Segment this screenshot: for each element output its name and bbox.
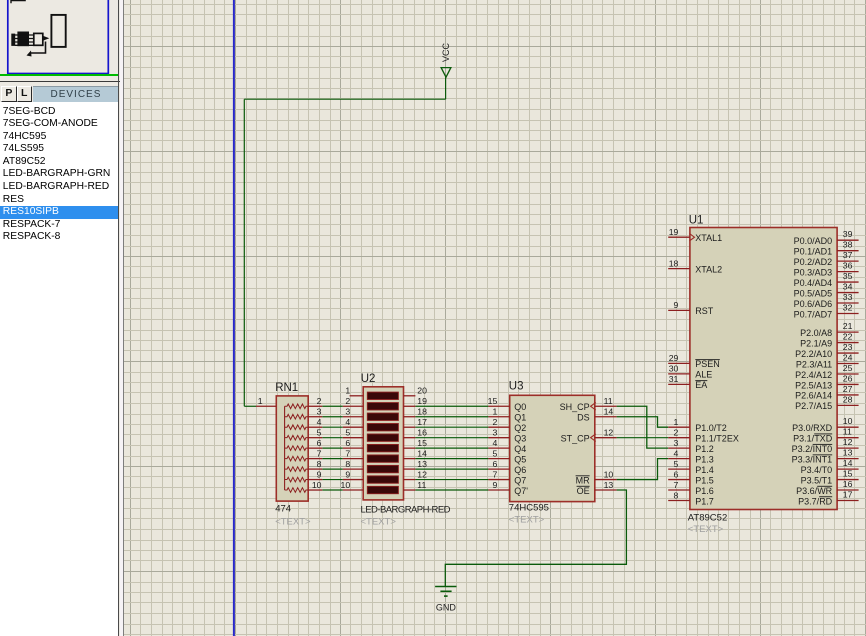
svg-text:8: 8 xyxy=(345,459,350,469)
U2 pin 14 stub (right) xyxy=(404,458,416,460)
U2 pin 7 stub (left) xyxy=(343,458,363,460)
RN1 pin 1 stub xyxy=(256,405,276,407)
RN1 pin 8 stub xyxy=(308,468,322,470)
svg-text:26: 26 xyxy=(843,373,853,383)
svg-text:P3.5/T1: P3.5/T1 xyxy=(801,475,833,485)
RN1 pin 10 stub xyxy=(308,489,322,491)
U3 pin 2 stub (left) xyxy=(488,426,509,428)
svg-text:P3.7/RD: P3.7/RD xyxy=(798,496,833,506)
svg-text:10: 10 xyxy=(341,480,351,490)
wire VCC vertical drop xyxy=(445,77,447,99)
wire U2 pin 15 to U3 pin 4 xyxy=(415,447,488,449)
svg-text:27: 27 xyxy=(843,384,853,394)
resistor element 2 of RN1 xyxy=(285,414,309,419)
svg-text:9: 9 xyxy=(492,480,497,490)
power symbol VCC xyxy=(441,42,451,77)
svg-text:<TEXT>: <TEXT> xyxy=(361,517,397,528)
svg-text:1: 1 xyxy=(345,386,350,396)
svg-text:Q5: Q5 xyxy=(514,454,526,464)
svg-text:7: 7 xyxy=(345,448,350,458)
svg-text:P1.4: P1.4 xyxy=(695,465,714,475)
svg-text:15: 15 xyxy=(843,469,853,479)
svg-text:31: 31 xyxy=(669,374,679,384)
svg-text:3: 3 xyxy=(317,407,322,417)
svg-text:Q1: Q1 xyxy=(514,413,526,423)
svg-text:14: 14 xyxy=(417,448,427,458)
U2 pin 13 stub (right) xyxy=(404,468,416,470)
svg-text:36: 36 xyxy=(843,261,853,271)
svg-text:9: 9 xyxy=(317,469,322,479)
svg-text:P1.3: P1.3 xyxy=(695,454,714,464)
svg-text:1: 1 xyxy=(674,417,679,427)
preview mini U1 xyxy=(51,15,65,47)
U3 pin 11 stub (right) xyxy=(595,405,617,407)
svg-text:24: 24 xyxy=(843,353,853,363)
svg-text:4: 4 xyxy=(317,417,322,427)
U3 pin 5 stub (left) xyxy=(488,458,509,460)
U1 pin 37 stub (right) xyxy=(837,260,859,262)
U1 pin 34 stub (right) xyxy=(837,292,859,294)
U1 pin 10 stub (right) xyxy=(837,426,859,428)
svg-text:4: 4 xyxy=(674,448,679,458)
resistor element 5 of RN1 xyxy=(285,446,309,451)
svg-text:Q3: Q3 xyxy=(514,433,526,443)
wire U2 pin 14 to U3 pin 5 xyxy=(415,458,488,460)
U1 pin 24 stub (right) xyxy=(837,363,859,365)
svg-text:P0.2/AD2: P0.2/AD2 xyxy=(794,257,833,267)
svg-text:11: 11 xyxy=(843,427,852,437)
U3 pin 15 stub (left) xyxy=(488,405,509,407)
svg-text:Q7': Q7' xyxy=(514,486,528,496)
svg-text:12: 12 xyxy=(417,469,427,479)
U1 pin 2 stub (left) xyxy=(668,437,690,439)
wire U2 pin 16 to U3 pin 3 xyxy=(415,437,488,439)
svg-text:P0.3/AD3: P0.3/AD3 xyxy=(794,267,833,277)
svg-text:3: 3 xyxy=(674,438,679,448)
wire RN1 pin 5 to U2 pin 5 xyxy=(322,437,343,439)
svg-text:2: 2 xyxy=(345,396,350,406)
svg-text:MR: MR xyxy=(576,475,590,485)
U3 clock mark on pin 12 xyxy=(591,434,596,442)
svg-text:2: 2 xyxy=(492,417,497,427)
RN1 pin 3 stub xyxy=(308,416,322,418)
svg-text:P1.0/T2: P1.0/T2 xyxy=(695,423,727,433)
U1 pin 27 stub (right) xyxy=(837,394,859,396)
svg-text:P3.3/INT1: P3.3/INT1 xyxy=(792,454,833,464)
svg-text:ALE: ALE xyxy=(695,370,712,380)
U2 pin 20 stub (right) xyxy=(404,395,416,397)
svg-text:EA: EA xyxy=(695,380,707,390)
U3 pin 3 stub (left) xyxy=(488,437,509,439)
RN1 pin 6 stub xyxy=(308,447,322,449)
wire U2 pin 17 to U3 pin 2 xyxy=(415,426,488,428)
svg-text:P3.0/RXD: P3.0/RXD xyxy=(792,423,833,433)
wire U3 SH_CP to U1 P1.2 xyxy=(617,406,669,448)
LED bar segment 6 of U2 xyxy=(367,444,398,451)
U2 pin 9 stub (left) xyxy=(343,479,363,481)
U3 clock mark on pin 11 xyxy=(591,402,596,410)
svg-text:8: 8 xyxy=(317,459,322,469)
svg-text:XTAL2: XTAL2 xyxy=(695,264,722,274)
svg-text:8: 8 xyxy=(674,490,679,500)
U1 pin 3 stub (left) xyxy=(668,447,690,449)
LED bar segment 5 of U2 xyxy=(367,434,398,441)
shift register U3 body xyxy=(510,395,595,501)
resistor network RN1 body xyxy=(276,396,308,501)
svg-text:1: 1 xyxy=(492,407,497,417)
U2 pin 12 stub (right) xyxy=(404,479,416,481)
svg-text:15: 15 xyxy=(488,396,498,406)
svg-text:10: 10 xyxy=(843,416,853,426)
svg-text:11: 11 xyxy=(417,480,426,490)
U2 pin 15 stub (right) xyxy=(404,447,416,449)
U1 pin 7 stub (left) xyxy=(668,489,690,491)
svg-text:5: 5 xyxy=(345,427,350,437)
svg-text:<TEXT>: <TEXT> xyxy=(275,517,311,528)
svg-text:16: 16 xyxy=(417,427,427,437)
svg-text:4: 4 xyxy=(345,417,350,427)
svg-text:P2.4/A12: P2.4/A12 xyxy=(795,370,832,380)
svg-text:RN1: RN1 xyxy=(275,382,298,394)
wire RN1 pin 3 to U2 pin 3 xyxy=(322,416,343,418)
svg-text:LED-BARGRAPH-RED: LED-BARGRAPH-RED xyxy=(361,505,451,516)
U1 pin 1 stub (left) xyxy=(668,426,690,428)
svg-text:P0.6/AD6: P0.6/AD6 xyxy=(794,299,833,309)
svg-text:P0.0/AD0: P0.0/AD0 xyxy=(794,236,833,246)
svg-text:GND: GND xyxy=(436,603,457,613)
U1 pin 12 stub (right) xyxy=(837,447,859,449)
LED bar segment 3 of U2 xyxy=(367,413,398,420)
U1 pin 15 stub (right) xyxy=(837,479,859,481)
svg-text:Q4: Q4 xyxy=(514,444,526,454)
svg-text:DS: DS xyxy=(577,413,590,423)
svg-text:29: 29 xyxy=(669,353,679,363)
resistor element 7 of RN1 xyxy=(285,467,309,472)
svg-text:2: 2 xyxy=(674,427,679,437)
preview mini gnd wire with arrow xyxy=(30,42,46,54)
svg-text:19: 19 xyxy=(669,227,679,237)
U1 pin 31 stub (left) xyxy=(668,383,690,385)
svg-text:11: 11 xyxy=(604,396,613,406)
svg-text:7: 7 xyxy=(674,480,679,490)
svg-text:20: 20 xyxy=(417,386,427,396)
U3 pin 4 stub (left) xyxy=(488,447,509,449)
U2 pin 1 stub (left) xyxy=(350,395,364,397)
svg-text:25: 25 xyxy=(843,363,853,373)
U1 pin 14 stub (right) xyxy=(837,468,859,470)
preview mini wires xyxy=(15,34,34,36)
wire U3 ST_CP to U1 P1.1 xyxy=(617,437,669,439)
wire U2 pin 13 to U3 pin 6 xyxy=(415,468,488,470)
U2 pin 3 stub (left) xyxy=(343,416,363,418)
RN1 pin 2 stub xyxy=(308,405,322,407)
svg-text:33: 33 xyxy=(843,292,853,302)
LED bargraph U2 body xyxy=(363,387,403,500)
U2 pin 6 stub (left) xyxy=(343,447,363,449)
svg-text:17: 17 xyxy=(417,417,427,427)
svg-text:SH_CP: SH_CP xyxy=(560,402,590,412)
svg-text:P2.0/A8: P2.0/A8 xyxy=(800,328,832,338)
svg-text:<TEXT>: <TEXT> xyxy=(688,524,724,535)
preview window frame xyxy=(8,0,109,74)
U3 pin 7 stub (left) xyxy=(488,479,509,481)
U1 pin 9 stub (left) xyxy=(668,309,690,311)
svg-text:P2.5/A13: P2.5/A13 xyxy=(795,380,832,390)
U1 pin 28 stub (right) xyxy=(837,404,859,406)
U1 pin 30 stub (left) xyxy=(668,373,690,375)
svg-text:6: 6 xyxy=(317,438,322,448)
preview mini U3 xyxy=(34,33,43,45)
U2 pin 5 stub (left) xyxy=(343,437,363,439)
svg-text:<TEXT>: <TEXT> xyxy=(509,515,545,526)
U1 pin 29 stub (left) xyxy=(668,362,690,364)
resistor element 6 of RN1 xyxy=(285,456,309,461)
U3 pin 10 stub (right) xyxy=(595,479,617,481)
svg-text:ST_CP: ST_CP xyxy=(561,433,590,443)
svg-text:P0.1/AD1: P0.1/AD1 xyxy=(794,246,833,256)
U1 pin 33 stub (right) xyxy=(837,302,859,304)
svg-text:PSEN: PSEN xyxy=(695,359,720,369)
wire RN1 pin 6 to U2 pin 6 xyxy=(322,447,343,449)
svg-text:1: 1 xyxy=(258,396,263,406)
svg-text:OE: OE xyxy=(577,486,590,496)
LED bar segment 7 of U2 xyxy=(367,455,398,462)
wire RN1 pin 2 to U2 pin 2 xyxy=(322,405,343,407)
wire U2 pin 12 to U3 pin 7 xyxy=(415,479,488,481)
U2 pin 11 stub (right) xyxy=(404,489,416,491)
svg-text:30: 30 xyxy=(669,364,679,374)
U2 pin 8 stub (left) xyxy=(343,468,363,470)
svg-text:P0.4/AD4: P0.4/AD4 xyxy=(794,278,833,288)
U1 pin 25 stub (right) xyxy=(837,373,859,375)
LED bar segment 10 of U2 xyxy=(367,486,398,493)
U1 pin 18 stub (left) xyxy=(668,268,690,270)
LED bar segment 4 of U2 xyxy=(367,424,398,431)
svg-text:13: 13 xyxy=(417,459,427,469)
LED bar segment 1 of U2 xyxy=(367,392,398,399)
preview mini RN1 xyxy=(11,34,15,46)
svg-text:U3: U3 xyxy=(509,381,524,393)
resistor element 1 of RN1 xyxy=(285,404,309,409)
U2 pin 16 stub (right) xyxy=(404,437,416,439)
wire RN1 pin 9 to U2 pin 9 xyxy=(322,479,343,481)
LED bar segment 2 of U2 xyxy=(367,403,398,410)
U3 pin 13 stub (right) xyxy=(595,489,617,491)
U1 pin 6 stub (left) xyxy=(668,479,690,481)
U2 pin 17 stub (right) xyxy=(404,426,416,428)
svg-text:6: 6 xyxy=(345,438,350,448)
svg-text:4: 4 xyxy=(492,438,497,448)
U1 pin 36 stub (right) xyxy=(837,271,859,273)
U1 pin 26 stub (right) xyxy=(837,383,859,385)
resistor element 9 of RN1 xyxy=(285,488,309,493)
svg-text:10: 10 xyxy=(312,480,322,490)
wire vertical down to RN1 pin 1 xyxy=(243,99,245,406)
svg-text:13: 13 xyxy=(843,448,853,458)
U2 pin 2 stub (left) xyxy=(343,405,363,407)
U1 pin 35 stub (right) xyxy=(837,281,859,283)
U3 pin 9 stub (left) xyxy=(488,489,509,491)
svg-text:RST: RST xyxy=(695,306,714,316)
svg-text:P2.6/A14: P2.6/A14 xyxy=(795,391,832,401)
U1 pin 38 stub (right) xyxy=(837,250,859,252)
preview mini sheet corner xyxy=(11,1,26,4)
svg-text:34: 34 xyxy=(843,282,853,292)
svg-text:12: 12 xyxy=(604,427,614,437)
svg-text:12: 12 xyxy=(843,437,853,447)
svg-text:Q0: Q0 xyxy=(514,402,526,412)
U2 pin 19 stub (right) xyxy=(404,405,416,407)
svg-text:39: 39 xyxy=(843,229,853,239)
wire U2 pin 18 to U3 pin 1 xyxy=(415,416,488,418)
resistor element 8 of RN1 xyxy=(285,477,309,482)
svg-text:18: 18 xyxy=(669,258,679,268)
svg-text:Q6: Q6 xyxy=(514,465,526,475)
svg-text:28: 28 xyxy=(843,394,853,404)
svg-text:XTAL1: XTAL1 xyxy=(695,233,722,243)
U3 pin 6 stub (left) xyxy=(488,468,509,470)
U1 pin 11 stub (right) xyxy=(837,437,859,439)
svg-text:P3.1/TXD: P3.1/TXD xyxy=(793,433,833,443)
svg-text:23: 23 xyxy=(843,342,853,352)
svg-text:P3.4/T0: P3.4/T0 xyxy=(801,465,833,475)
svg-text:VCC: VCC xyxy=(441,42,451,62)
svg-text:Q2: Q2 xyxy=(514,423,526,433)
LED bar segment 9 of U2 xyxy=(367,476,398,483)
U1 pin 23 stub (right) xyxy=(837,352,859,354)
microcontroller U1 body xyxy=(690,228,837,510)
U1 pin 16 stub (right) xyxy=(837,489,859,491)
svg-text:6: 6 xyxy=(674,469,679,479)
U1 pin 32 stub (right) xyxy=(837,312,859,314)
svg-text:7: 7 xyxy=(317,448,322,458)
U3 pin 12 stub (right) xyxy=(595,437,617,439)
wire U2 pin 19 to U3 pin 15 xyxy=(415,405,488,407)
svg-text:35: 35 xyxy=(843,271,853,281)
wire RN1 pin 4 to U2 pin 4 xyxy=(322,426,343,428)
U1 clock mark on pin 19 XTAL1 xyxy=(689,233,694,241)
svg-text:21: 21 xyxy=(843,321,853,331)
U3 pin 1 stub (left) xyxy=(488,416,509,418)
RN1 pin 4 stub xyxy=(308,426,322,428)
svg-text:14: 14 xyxy=(604,407,614,417)
svg-text:10: 10 xyxy=(604,469,614,479)
svg-text:2: 2 xyxy=(317,396,322,406)
wire U2 pin 11 to U3 pin 9 xyxy=(415,489,488,491)
svg-text:5: 5 xyxy=(492,448,497,458)
RN1 pin 9 stub xyxy=(308,479,322,481)
svg-text:P1.7: P1.7 xyxy=(695,496,714,506)
preview mini U2 xyxy=(17,32,29,47)
svg-text:38: 38 xyxy=(843,240,853,250)
wire into RN1 pin 1 xyxy=(244,405,256,407)
wire U3 DS to U1 P1.0 xyxy=(617,417,669,427)
RN1 pin 5 stub xyxy=(308,437,322,439)
svg-text:P2.3/A11: P2.3/A11 xyxy=(796,359,832,369)
svg-text:P1.5: P1.5 xyxy=(695,475,714,485)
svg-text:3: 3 xyxy=(345,407,350,417)
svg-text:5: 5 xyxy=(674,459,679,469)
svg-text:18: 18 xyxy=(417,407,427,417)
wire RN1 pin 8 to U2 pin 8 xyxy=(322,468,343,470)
U2 pin 18 stub (right) xyxy=(404,416,416,418)
U3 pin 14 stub (right) xyxy=(595,416,617,418)
svg-text:P1.2: P1.2 xyxy=(695,444,714,454)
svg-text:6: 6 xyxy=(492,459,497,469)
svg-text:22: 22 xyxy=(843,332,853,342)
ground xyxy=(435,587,456,613)
LED bar segment 8 of U2 xyxy=(367,465,398,472)
svg-text:32: 32 xyxy=(843,302,853,312)
svg-text:74HC595: 74HC595 xyxy=(509,503,549,514)
U1 pin 22 stub (right) xyxy=(837,342,859,344)
resistor element 4 of RN1 xyxy=(285,435,309,440)
svg-text:37: 37 xyxy=(843,250,853,260)
resistor element 3 of RN1 xyxy=(285,425,309,430)
svg-text:17: 17 xyxy=(843,490,853,500)
svg-text:P0.5/AD5: P0.5/AD5 xyxy=(794,288,833,298)
svg-text:7: 7 xyxy=(492,469,497,479)
svg-text:9: 9 xyxy=(345,469,350,479)
U1 pin 39 stub (right) xyxy=(837,239,859,241)
svg-text:P1.6: P1.6 xyxy=(695,486,714,496)
U1 pin 13 stub (right) xyxy=(837,458,859,460)
U1 pin 8 stub (left) xyxy=(668,500,690,502)
U1 pin 5 stub (left) xyxy=(668,468,690,470)
svg-text:P2.2/A10: P2.2/A10 xyxy=(795,349,832,359)
svg-text:AT89C52: AT89C52 xyxy=(688,513,727,524)
svg-text:15: 15 xyxy=(417,438,427,448)
svg-text:P2.1/A9: P2.1/A9 xyxy=(800,338,832,348)
svg-text:Q7: Q7 xyxy=(514,475,526,485)
svg-text:P2.7/A15: P2.7/A15 xyxy=(795,401,832,411)
U2 pin 10 stub (left) xyxy=(343,489,363,491)
sheet border (blue) xyxy=(233,0,235,636)
svg-text:474: 474 xyxy=(275,504,291,515)
svg-text:5: 5 xyxy=(317,427,322,437)
U1 pin 4 stub (left) xyxy=(668,458,690,460)
wire U3 MR to U1 P1.3 xyxy=(617,459,669,480)
U1 pin 17 stub (right) xyxy=(837,500,859,502)
svg-text:P0.7/AD7: P0.7/AD7 xyxy=(794,309,833,319)
U1 pin 21 stub (right) xyxy=(837,331,859,333)
wire RN1 pin 7 to U2 pin 7 xyxy=(322,458,343,460)
svg-text:14: 14 xyxy=(843,458,853,468)
svg-text:P3.6/WR: P3.6/WR xyxy=(796,486,833,496)
svg-text:13: 13 xyxy=(604,480,614,490)
svg-text:U2: U2 xyxy=(361,373,376,385)
svg-text:3: 3 xyxy=(492,427,497,437)
wire U3 OE to ground xyxy=(445,490,626,586)
svg-text:P3.2/INT0: P3.2/INT0 xyxy=(792,444,833,454)
svg-text:16: 16 xyxy=(843,479,853,489)
preview mini clock arrow xyxy=(44,36,50,41)
svg-text:P1.1/T2EX: P1.1/T2EX xyxy=(695,433,739,443)
svg-text:U1: U1 xyxy=(689,215,704,227)
U1 pin 19 stub (left) xyxy=(668,236,690,238)
wire VCC horizontal to left xyxy=(244,98,445,100)
RN1 pin 7 stub xyxy=(308,458,322,460)
svg-text:19: 19 xyxy=(417,396,427,406)
wire RN1 pin 10 to U2 pin 10 xyxy=(322,489,343,491)
svg-text:9: 9 xyxy=(674,300,679,310)
U2 pin 4 stub (left) xyxy=(343,426,363,428)
